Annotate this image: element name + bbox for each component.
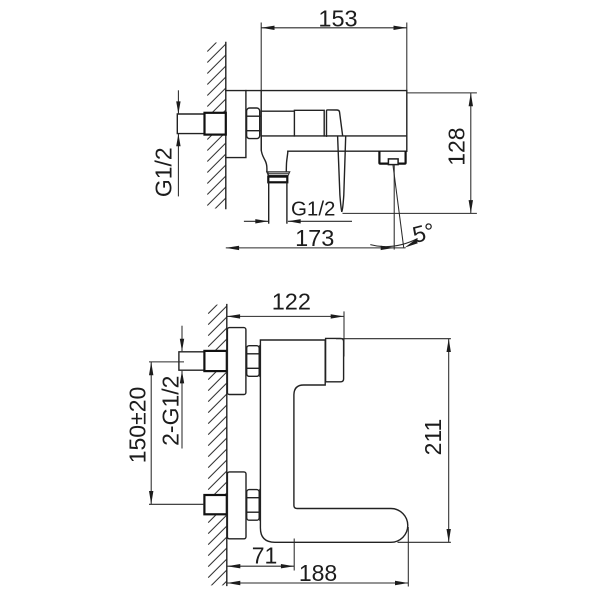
svg-text:173: 173 xyxy=(295,225,334,251)
svg-text:71: 71 xyxy=(252,543,278,569)
dimension 150+-20 extension bottom xyxy=(149,503,204,505)
svg-text:150±20: 150±20 xyxy=(125,387,151,464)
lower washer xyxy=(259,490,261,521)
dimension 150+-20 extension top xyxy=(149,361,184,363)
aerator collar xyxy=(268,177,287,183)
svg-text:153: 153 xyxy=(318,6,357,32)
lower coupler xyxy=(204,495,226,514)
inlet pipe dim arrows (view 1) xyxy=(177,90,179,114)
upper flange xyxy=(227,328,246,395)
cartridge cap (view 2) xyxy=(326,338,344,381)
hex nut N1 xyxy=(247,108,260,139)
inlet pipe G1/2 (view 1) xyxy=(177,114,204,134)
dimension 211 extension bottom xyxy=(398,541,451,543)
plumb reference line xyxy=(393,165,395,250)
dimension 128 extension top xyxy=(407,92,477,94)
body right edge / extension line (view 1) xyxy=(406,23,408,91)
dimension 153 line xyxy=(261,27,407,29)
spout leg left edge xyxy=(261,136,267,172)
svg-text:G1/2: G1/2 xyxy=(291,198,335,221)
wall hatching (view 1) xyxy=(207,33,226,228)
dimension 122 line xyxy=(227,315,344,317)
svg-text:G1/2: G1/2 xyxy=(151,147,177,197)
valve section line (view 1) xyxy=(261,110,294,112)
wall hatching (view 2) xyxy=(208,295,227,600)
pipe coupler at wall (view 1) xyxy=(205,113,226,135)
aerator ribbed band xyxy=(266,171,291,176)
wall line (view 1) xyxy=(225,43,227,209)
lower flange xyxy=(227,472,246,539)
dimension 71 line xyxy=(227,565,294,567)
body left edge / extension line (view 1) xyxy=(260,23,262,91)
angle arc 5deg xyxy=(370,239,417,247)
upper washer xyxy=(259,346,261,377)
lower hex nut xyxy=(247,490,260,521)
lever handle hanging (view 1) xyxy=(338,136,342,211)
body shelf line (view 1) xyxy=(288,150,407,152)
spout leg right edge xyxy=(286,151,288,171)
arc arrowhead right xyxy=(405,239,418,247)
svg-text:122: 122 xyxy=(272,288,311,314)
dimension 128 extension bottom xyxy=(343,212,477,214)
dimension 122 extension xyxy=(343,311,345,356)
upper hex nut xyxy=(247,346,260,377)
wall line (view 2) xyxy=(226,305,228,586)
dimension 188 extension xyxy=(407,527,409,587)
dimension 173 line xyxy=(226,247,406,249)
dimension 211 line xyxy=(448,339,450,543)
upper inlet pipe (view 2) xyxy=(179,352,205,370)
outlet pipe walls xyxy=(268,182,270,223)
pipe dim arrows (view 2) xyxy=(181,326,183,352)
outlet nub xyxy=(388,159,398,165)
handle knob (view 1) xyxy=(327,110,343,136)
svg-text:188: 188 xyxy=(299,560,337,586)
dimension 188 line xyxy=(227,582,408,584)
body bottom line (view 1) xyxy=(261,135,407,137)
dimension 128 line xyxy=(470,93,472,213)
body top edge (view 1) xyxy=(226,90,407,92)
body silhouette (view 2) xyxy=(260,340,407,542)
shower outlet (view 1) xyxy=(379,151,405,163)
svg-text:2-G1/2: 2-G1/2 xyxy=(158,376,184,446)
svg-text:211: 211 xyxy=(420,419,446,456)
dimension 211 extension top xyxy=(336,338,451,340)
spray direction line 5deg xyxy=(393,165,404,248)
wall flange (view 1) xyxy=(226,91,246,158)
dimension 71 extension xyxy=(293,539,295,571)
upper coupler xyxy=(204,351,226,371)
svg-text:128: 128 xyxy=(444,127,470,165)
cartridge section (view 1) xyxy=(294,110,324,136)
dimension 150+-20 line xyxy=(150,362,152,504)
G1/2 outlet dimension lines xyxy=(244,220,268,222)
